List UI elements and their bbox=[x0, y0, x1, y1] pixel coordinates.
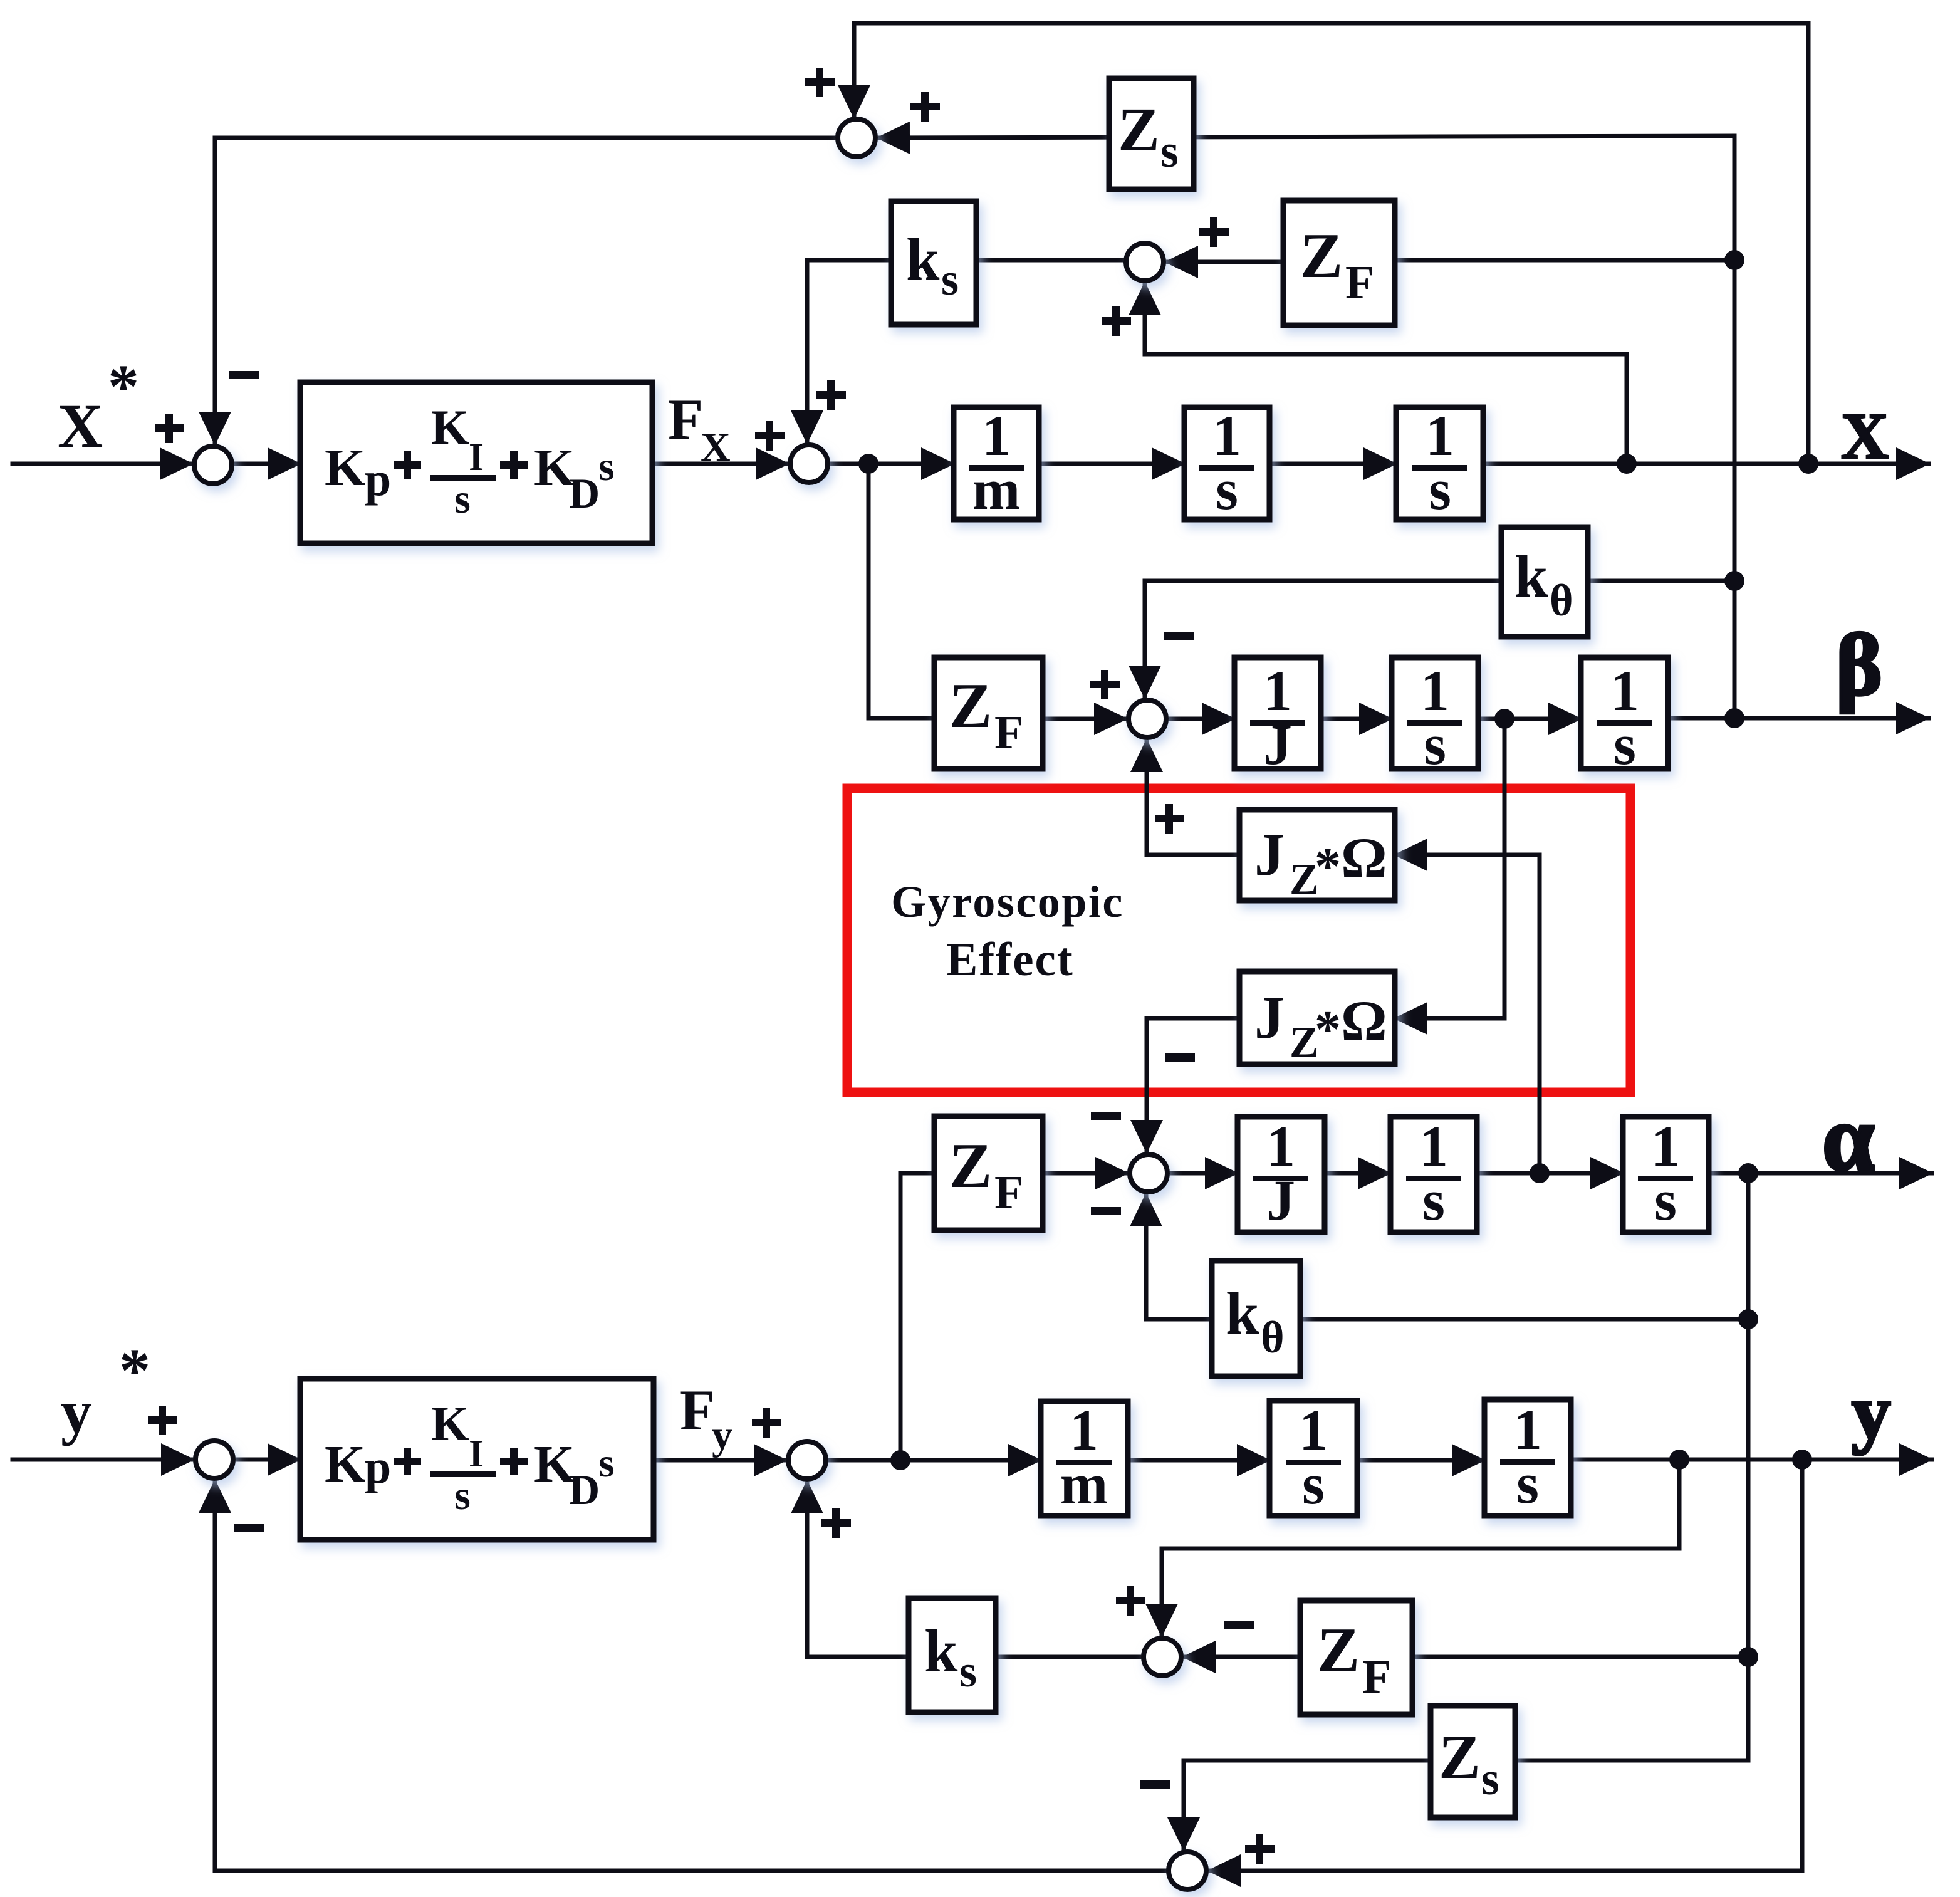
wire W39 1/m to 1/s bbox=[1128, 1458, 1269, 1463]
svg-text:X: X bbox=[701, 424, 731, 470]
svg-text:p: p bbox=[365, 1441, 391, 1493]
svg-text:β: β bbox=[1836, 617, 1882, 714]
svg-text:s: s bbox=[1516, 1451, 1539, 1515]
svg-text:α: α bbox=[1822, 1086, 1875, 1190]
wire W40 1/s to 1/s bbox=[1357, 1458, 1484, 1463]
wire W23 1/s to beta output bbox=[1668, 716, 1929, 721]
node N11 ZF-bottom tap (junction dot) bbox=[1738, 1647, 1758, 1667]
svg-text:s: s bbox=[1429, 457, 1451, 521]
svg-text:θ: θ bbox=[1550, 575, 1573, 625]
svg-text:p: p bbox=[365, 453, 391, 506]
svg-text:F: F bbox=[680, 1378, 715, 1442]
block 1/s beta 2 bbox=[1581, 657, 1668, 776]
block Jz*Omega upper bbox=[1239, 810, 1395, 904]
block ZF beta bbox=[934, 657, 1043, 769]
sign - S6 bottom minus bbox=[1091, 1207, 1121, 1215]
svg-text:Ω: Ω bbox=[1341, 826, 1387, 890]
block ks bottom bbox=[909, 1598, 996, 1712]
wire W8 X to top feedback into S2 bbox=[854, 23, 1808, 464]
wire W25 alpha-dot to JzOmega-up bbox=[1395, 855, 1540, 1173]
svg-text:K: K bbox=[325, 1435, 365, 1493]
wire W38 S8 to 1/m bbox=[828, 1458, 1041, 1463]
wire W50 y junction to S10 (plus) bbox=[1208, 1460, 1802, 1871]
svg-text:Z: Z bbox=[949, 671, 992, 741]
wire W16 X junction up to S3 (plus) bbox=[1145, 283, 1627, 464]
svg-text:F: F bbox=[668, 387, 703, 451]
wire W18 ZF-beta to S5 bbox=[1043, 717, 1127, 721]
block 1/s beta 1 bbox=[1392, 657, 1478, 776]
svg-text:s: s bbox=[454, 1473, 471, 1518]
wire W26 beta-dot to JzOmega-low bbox=[1395, 719, 1504, 1018]
sign + Fy bottom plus bbox=[821, 1508, 851, 1538]
block 1/m y-row bbox=[1041, 1398, 1128, 1516]
wire W10 S2 to S1 (minus) bbox=[215, 138, 836, 444]
svg-text:F: F bbox=[1345, 256, 1374, 309]
sign + Fy left plus bbox=[752, 1408, 781, 1438]
svg-text:s: s bbox=[1613, 713, 1636, 776]
sign - S6 top minus bbox=[1091, 1112, 1121, 1120]
block ZF top bbox=[1283, 201, 1395, 325]
sign + S3 bottom plus bbox=[1102, 306, 1131, 336]
sign + S5 bottom plus bbox=[1155, 804, 1184, 834]
wire W17 Fx junction to ZF-beta bbox=[868, 464, 934, 718]
block Zs top bbox=[1109, 78, 1194, 189]
sign + S3 right plus bbox=[1199, 217, 1229, 247]
svg-text:F: F bbox=[1362, 1651, 1391, 1703]
svg-text:m: m bbox=[1060, 1452, 1108, 1516]
sign + S9 top plus bbox=[1116, 1586, 1145, 1616]
summing junction S9 (y + ZF*alpha) bbox=[1144, 1638, 1181, 1676]
svg-text:s: s bbox=[1422, 1168, 1445, 1232]
wire W27 JzOmega-low to S6 (minus) bbox=[1147, 1018, 1239, 1152]
sign + X* plus bbox=[155, 414, 184, 443]
svg-text:J: J bbox=[1263, 713, 1292, 776]
node N8 alpha-dot tap (junction dot) bbox=[1530, 1163, 1550, 1183]
wire W5 1/m to 1/s bbox=[1039, 462, 1184, 466]
summing junction S5 (beta torque sum) bbox=[1129, 700, 1166, 738]
wire W21 1/J to 1/s bbox=[1321, 717, 1392, 721]
sign - S5 top minus bbox=[1164, 632, 1194, 640]
block Jz*Omega lower bbox=[1239, 971, 1395, 1067]
block Zs bottom bbox=[1431, 1706, 1515, 1817]
block PID-X [Kp+KI/s+KDs] bbox=[300, 382, 652, 543]
wire W11 beta vertical bus bbox=[1733, 136, 1737, 718]
wire W48 ks-bottom to S8 (plus) bbox=[807, 1481, 909, 1657]
svg-text:k: k bbox=[924, 1617, 958, 1685]
svg-text:s: s bbox=[454, 476, 471, 522]
svg-text:y: y bbox=[1852, 1369, 1891, 1456]
wire W14 S3 to ks-top bbox=[976, 258, 1124, 263]
gyroscopic effect region (red frame) bbox=[847, 788, 1630, 1092]
svg-text:s: s bbox=[941, 254, 959, 305]
wire W36 S7 to PID-Y bbox=[235, 1458, 300, 1462]
svg-text:F: F bbox=[994, 1166, 1023, 1219]
svg-text:K: K bbox=[431, 1396, 469, 1451]
svg-text:J: J bbox=[1254, 821, 1285, 888]
summing junction S8 (Fy force sum) bbox=[788, 1441, 826, 1479]
svg-text:F: F bbox=[994, 706, 1023, 759]
svg-text:s: s bbox=[1654, 1168, 1677, 1232]
svg-text:s: s bbox=[1302, 1452, 1325, 1516]
svg-text:y: y bbox=[712, 1413, 732, 1458]
wire W33 1/s to 1/s bbox=[1477, 1171, 1623, 1176]
wire W13 ZF-top to S3 bbox=[1165, 260, 1283, 264]
block ZF alpha bbox=[934, 1116, 1043, 1230]
block 1/s y-row 1 bbox=[1269, 1398, 1357, 1516]
block ktheta top bbox=[1501, 527, 1588, 637]
svg-text:k: k bbox=[1514, 543, 1548, 610]
wire W35 y* input bbox=[13, 1458, 194, 1462]
node N5 ktheta-top tap (junction dot) bbox=[1724, 571, 1744, 591]
sign - JzOmega-low out minus bbox=[1165, 1053, 1195, 1062]
svg-text:*: * bbox=[119, 1335, 150, 1405]
svg-text:s: s bbox=[598, 444, 615, 489]
wire W12 beta to ZF-top input bbox=[1395, 258, 1734, 263]
wire W20 S5 to 1/J bbox=[1168, 717, 1234, 721]
summing junction S3 (X + ZF*beta) bbox=[1126, 243, 1164, 281]
svg-text:s: s bbox=[598, 1440, 615, 1486]
sign + Fx top plus bbox=[816, 380, 846, 410]
wire W7 1/s to X output bbox=[1483, 462, 1929, 466]
wire W15 ks-top to S4 (plus) bbox=[807, 260, 891, 443]
wire W4 S4 to 1/m bbox=[830, 462, 954, 466]
wire W42 alpha vertical bus to Zs-bottom bbox=[1515, 1173, 1748, 1760]
node N6 beta line tap (junction dot) bbox=[1724, 708, 1744, 728]
svg-text:k: k bbox=[1226, 1280, 1259, 1347]
svg-text:D: D bbox=[569, 1466, 600, 1513]
svg-text:Ω: Ω bbox=[1341, 989, 1387, 1053]
node N10 ktheta-bottom tap (junction dot) bbox=[1738, 1309, 1758, 1329]
block 1/J beta bbox=[1234, 657, 1321, 776]
svg-text:I: I bbox=[469, 436, 484, 479]
node N14 y node b (junction dot) bbox=[1792, 1450, 1812, 1470]
svg-text:s: s bbox=[1481, 1753, 1499, 1805]
wire W31 S6 to 1/J bbox=[1169, 1171, 1238, 1176]
wire W37 PID-Y to S8 (Fy) bbox=[654, 1458, 786, 1463]
sign + S5 left plus bbox=[1090, 670, 1120, 699]
wire W6 1/s to 1/s bbox=[1269, 462, 1396, 466]
summing junction S1 (X* error) bbox=[194, 446, 232, 484]
node N4 ZF-top tap (junction dot) bbox=[1724, 250, 1744, 270]
svg-text:D: D bbox=[569, 469, 600, 517]
svg-text:*: * bbox=[1315, 837, 1341, 896]
svg-text:X: X bbox=[1841, 399, 1889, 473]
svg-text:*: * bbox=[108, 352, 139, 421]
svg-text:J: J bbox=[1266, 1168, 1295, 1232]
node N13 y node a (junction dot) bbox=[1669, 1450, 1689, 1470]
block ktheta bottom bbox=[1212, 1261, 1300, 1376]
svg-text:I: I bbox=[469, 1433, 484, 1475]
wire W1 X* input bbox=[13, 462, 192, 466]
sign - y* feedback minus bbox=[234, 1524, 264, 1532]
wire W51 S10 to S7 (minus) bbox=[215, 1480, 1167, 1871]
wire W46 y junction down to S9 (plus) bbox=[1162, 1460, 1679, 1636]
node N1 Fx node (junction dot) bbox=[858, 454, 878, 474]
summing junction S2 (X sensor sum) bbox=[838, 119, 875, 157]
svg-text:J: J bbox=[1254, 984, 1285, 1051]
svg-text:Z: Z bbox=[1118, 95, 1160, 164]
block 1/s X-row 1 bbox=[1184, 404, 1269, 521]
summing junction S4 (Fx force sum) bbox=[790, 445, 828, 483]
wire W9 Zs line into S2 bbox=[877, 136, 1734, 138]
node N9 alpha line tap (junction dot) bbox=[1738, 1163, 1758, 1183]
svg-text:k: k bbox=[906, 226, 940, 293]
wire W49 Zs-bottom to S10 (minus) bbox=[1184, 1760, 1431, 1850]
svg-text:K: K bbox=[325, 439, 365, 497]
sign - S9 right minus bbox=[1224, 1621, 1254, 1629]
svg-text:Z: Z bbox=[1439, 1722, 1481, 1792]
sign + Fx left plus bbox=[755, 421, 785, 451]
node N3 X node b (junction dot) bbox=[1798, 454, 1818, 474]
sign - X* feedback minus bbox=[229, 371, 259, 379]
svg-text:θ: θ bbox=[1261, 1312, 1285, 1362]
block 1/J alpha bbox=[1238, 1114, 1325, 1232]
svg-text:X: X bbox=[58, 391, 103, 461]
wire W32 1/J to 1/s bbox=[1325, 1171, 1390, 1176]
block 1/s X-row 2 bbox=[1396, 404, 1483, 521]
block 1/s y-row 2 bbox=[1484, 1398, 1571, 1516]
block 1/s alpha 1 bbox=[1390, 1114, 1477, 1232]
wire W41 1/s to y output bbox=[1571, 1458, 1932, 1462]
sign + S10 right plus bbox=[1245, 1834, 1275, 1864]
svg-text:s: s bbox=[1216, 457, 1238, 521]
block 1/m X-row bbox=[954, 404, 1039, 521]
sign + y* plus bbox=[148, 1406, 177, 1435]
node N7 beta-dot tap (junction dot) bbox=[1494, 709, 1514, 729]
wire W34 1/s to alpha output bbox=[1709, 1171, 1932, 1176]
sign + S2 top plus bbox=[805, 68, 835, 97]
summing junction S7 (y* error) bbox=[195, 1441, 233, 1478]
sign + S2 right plus bbox=[910, 92, 940, 122]
svg-text:s: s bbox=[1424, 713, 1446, 776]
wire W28 Fy junction to ZF-alpha bbox=[900, 1173, 934, 1460]
wire W22 1/s to 1/s bbox=[1478, 717, 1581, 721]
wire W19 ktheta-top line to S5 (minus) bbox=[1145, 581, 1734, 698]
svg-text:Effect: Effect bbox=[946, 934, 1074, 986]
block ZF bottom bbox=[1300, 1601, 1412, 1715]
svg-text:*: * bbox=[1315, 1000, 1341, 1058]
summing junction S6 (alpha torque sum) bbox=[1130, 1154, 1167, 1192]
sign - S10 top minus bbox=[1140, 1780, 1170, 1789]
svg-text:Z: Z bbox=[1300, 221, 1343, 291]
svg-text:s: s bbox=[1160, 126, 1179, 177]
svg-text:Z: Z bbox=[1317, 1615, 1360, 1686]
wire W47 S9 to ks-bottom bbox=[996, 1655, 1142, 1659]
wire W3 PID-X to S4 (Fx) bbox=[652, 462, 788, 466]
svg-text:Z: Z bbox=[949, 1131, 992, 1201]
block PID-Y [Kp+KI/s+KDs] bbox=[300, 1379, 654, 1540]
node N12 Fy node (junction dot) bbox=[890, 1450, 910, 1470]
wire W45 ZF-bottom to S9 (minus) bbox=[1183, 1655, 1300, 1659]
node N2 X node a (junction dot) bbox=[1617, 454, 1637, 474]
summing junction S10 (y sensor sum) bbox=[1169, 1852, 1206, 1889]
block ks top bbox=[891, 201, 976, 325]
wire W24 JzOmega-up to S5 (plus) bbox=[1147, 739, 1239, 855]
svg-text:m: m bbox=[972, 457, 1021, 521]
svg-text:K: K bbox=[431, 400, 469, 454]
svg-text:s: s bbox=[959, 1646, 977, 1696]
wire W2 S1 to PID-X bbox=[234, 462, 300, 466]
wire W29 ZF-alpha to S6 bbox=[1043, 1171, 1128, 1176]
wire W30 ktheta-bottom line to S6 (minus) bbox=[1146, 1194, 1747, 1319]
svg-text:y: y bbox=[61, 1377, 92, 1446]
svg-text:Gyroscopic: Gyroscopic bbox=[891, 877, 1124, 927]
block 1/s alpha 2 bbox=[1623, 1114, 1709, 1232]
wire W44 alpha to ZF-bottom input bbox=[1412, 1655, 1748, 1659]
